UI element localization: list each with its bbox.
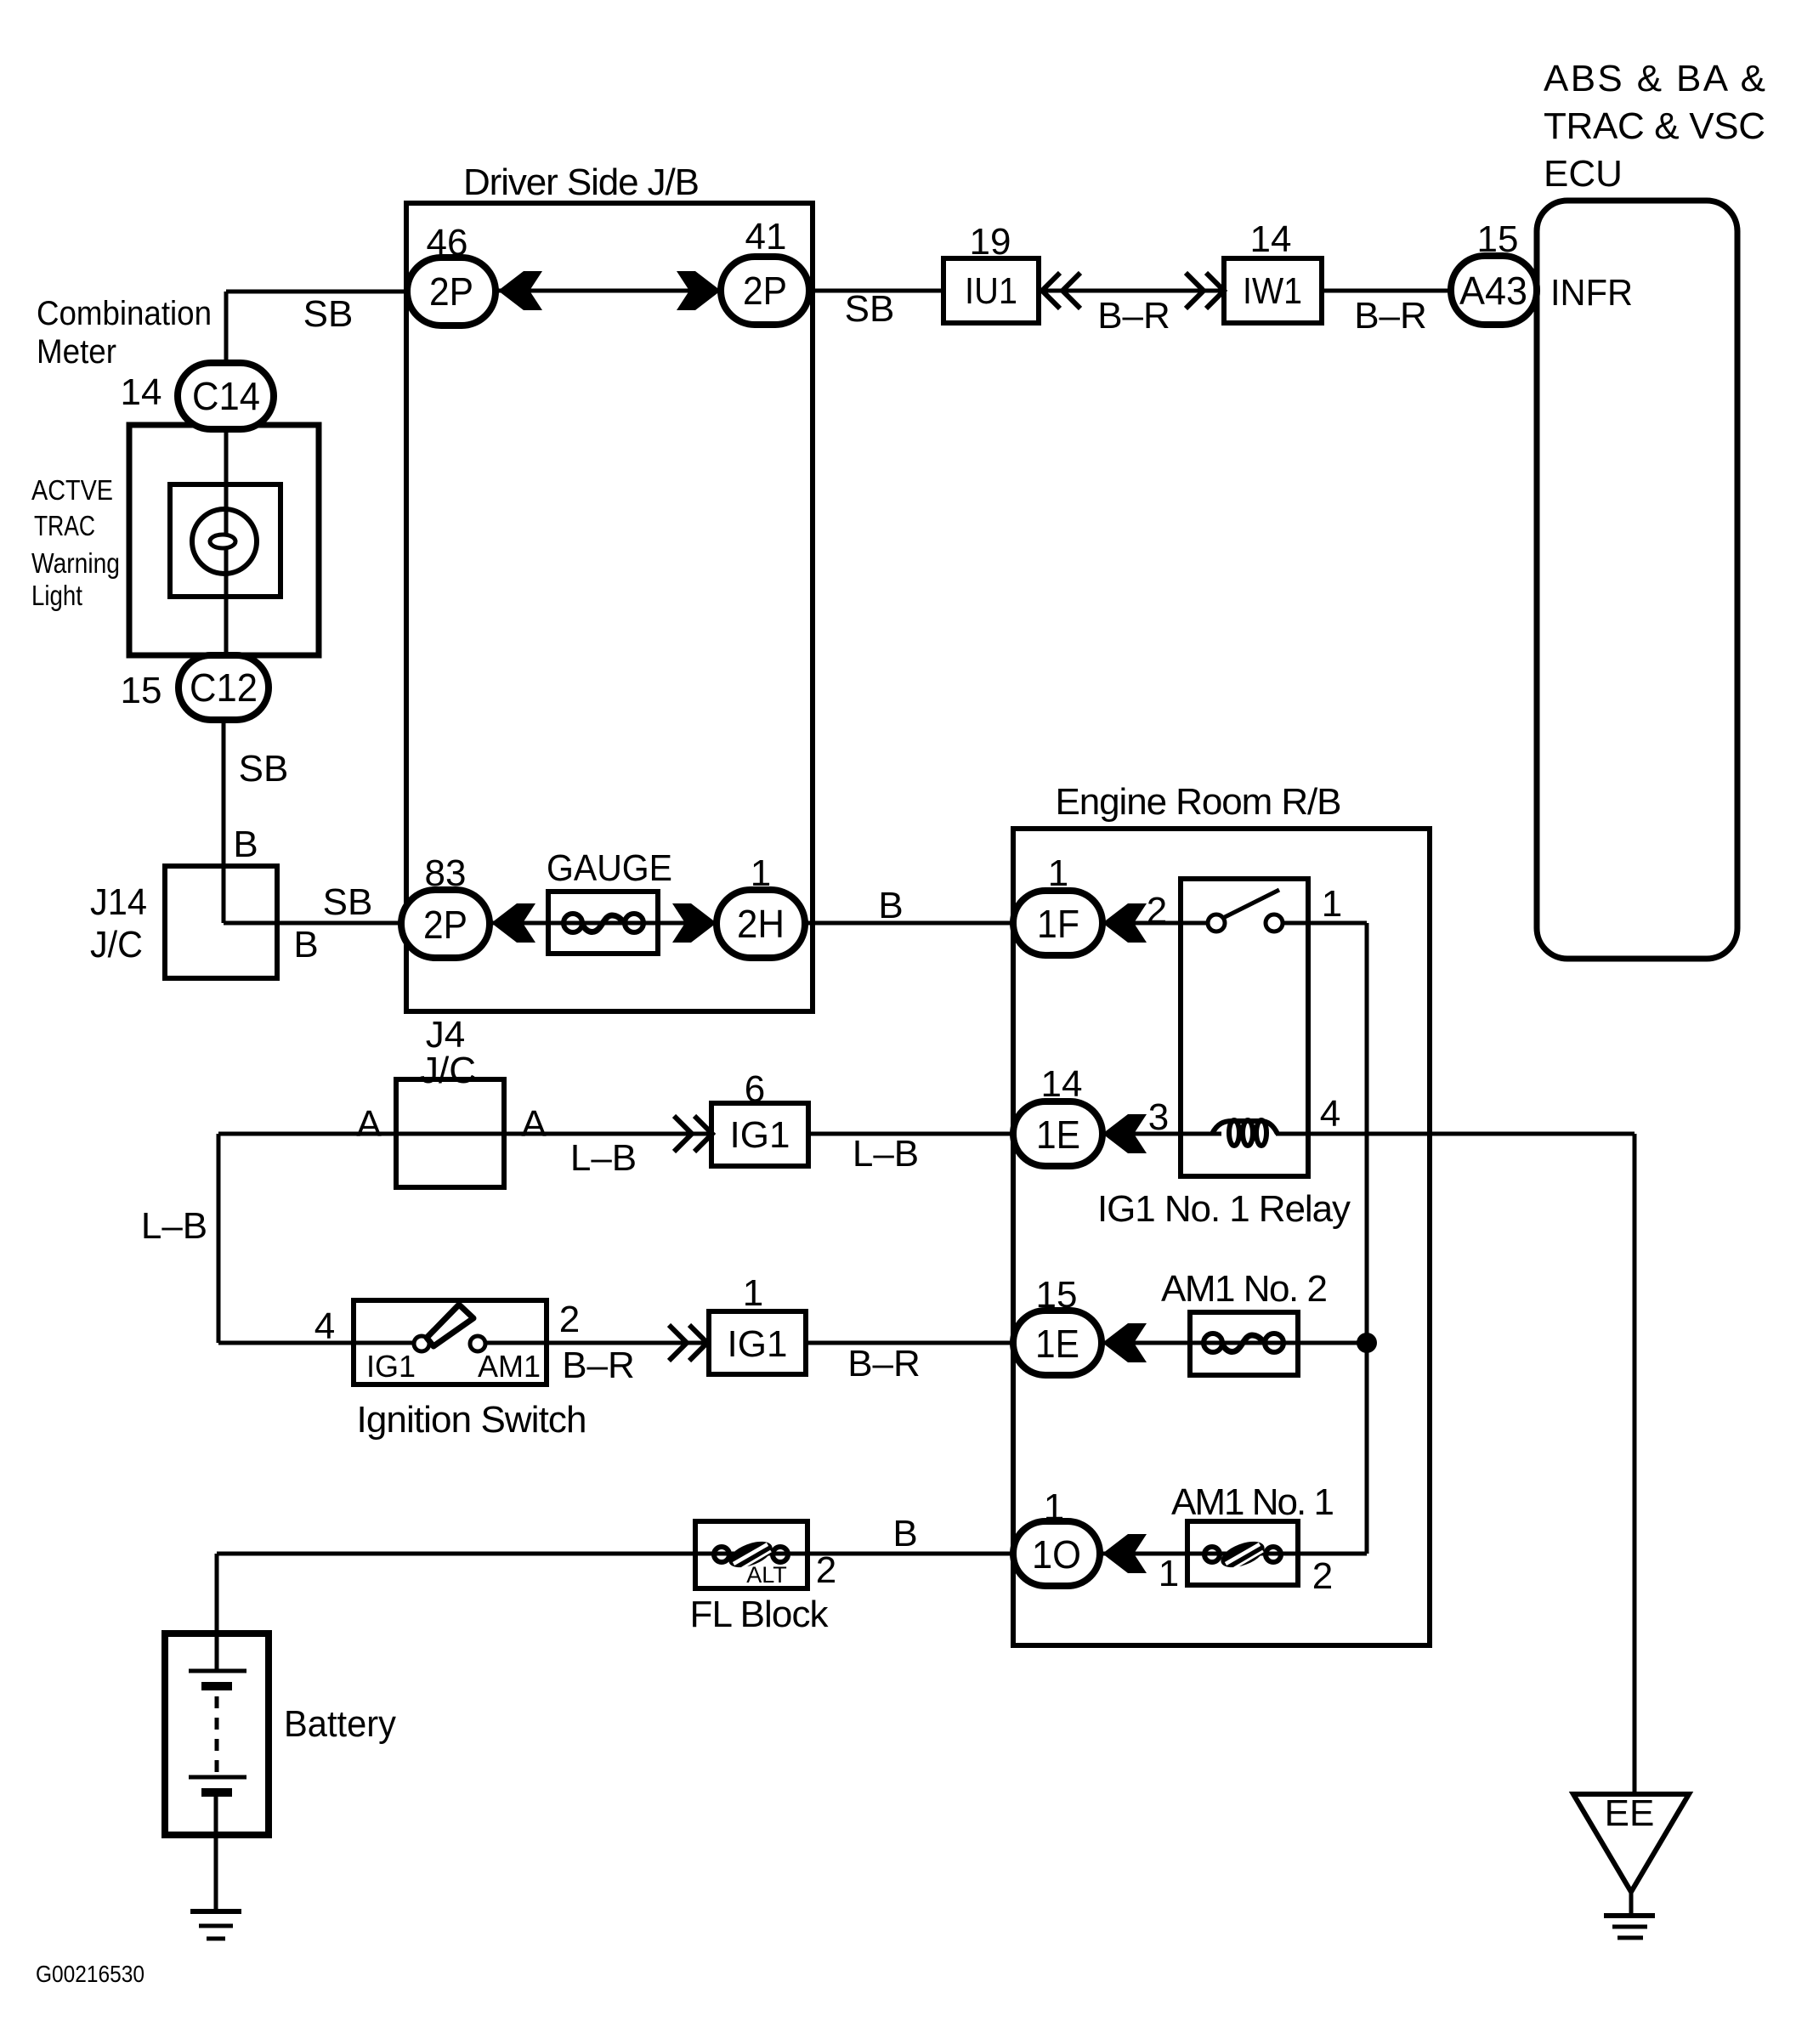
svg-text:Light: Light	[31, 580, 82, 611]
svg-text:IU1: IU1	[965, 270, 1017, 312]
svg-text:B–R: B–R	[1097, 295, 1170, 337]
svg-text:ALT: ALT	[746, 1562, 787, 1588]
svg-text:IG1 No. 1 Relay: IG1 No. 1 Relay	[1097, 1188, 1351, 1230]
svg-text:1E: 1E	[1035, 1322, 1079, 1366]
svg-text:Engine Room R/B: Engine Room R/B	[1056, 781, 1342, 823]
svg-text:1: 1	[1322, 883, 1342, 925]
svg-text:IW1: IW1	[1243, 270, 1302, 312]
svg-text:41: 41	[745, 216, 787, 258]
svg-text:14: 14	[1250, 218, 1292, 260]
svg-text:B–R: B–R	[847, 1343, 921, 1384]
svg-text:14: 14	[1041, 1063, 1083, 1105]
svg-text:IG1: IG1	[366, 1349, 416, 1384]
svg-text:1: 1	[1048, 852, 1068, 894]
svg-text:SB: SB	[845, 288, 895, 330]
svg-text:B: B	[892, 1513, 917, 1554]
svg-text:2P: 2P	[743, 269, 787, 313]
svg-text:Meter: Meter	[37, 333, 116, 371]
svg-text:46: 46	[427, 222, 468, 263]
svg-text:1F: 1F	[1037, 902, 1079, 946]
svg-text:6: 6	[745, 1068, 765, 1110]
svg-text:IG1: IG1	[730, 1114, 790, 1156]
svg-text:4: 4	[314, 1305, 335, 1347]
svg-text:ECU: ECU	[1544, 153, 1623, 195]
svg-text:ACTVE: ACTVE	[31, 474, 113, 506]
svg-text:SB: SB	[303, 293, 354, 335]
svg-text:SB: SB	[323, 881, 373, 923]
svg-text:AM1 No. 2: AM1 No. 2	[1161, 1268, 1328, 1310]
svg-text:EE: EE	[1605, 1792, 1655, 1834]
svg-text:L–B: L–B	[853, 1133, 919, 1175]
svg-text:L–B: L–B	[570, 1137, 637, 1179]
svg-text:1: 1	[1159, 1553, 1179, 1594]
svg-text:19: 19	[970, 221, 1011, 263]
svg-text:1: 1	[1044, 1486, 1064, 1528]
svg-text:15: 15	[121, 670, 162, 711]
svg-text:Combination: Combination	[37, 295, 212, 332]
svg-text:15: 15	[1477, 218, 1519, 260]
svg-text:15: 15	[1036, 1274, 1078, 1316]
svg-text:14: 14	[121, 371, 162, 413]
svg-text:4: 4	[1320, 1093, 1340, 1135]
svg-text:Battery: Battery	[284, 1703, 396, 1745]
svg-text:2: 2	[1312, 1555, 1333, 1597]
svg-text:2P: 2P	[423, 903, 467, 947]
svg-text:C12: C12	[190, 665, 258, 710]
svg-text:B: B	[233, 824, 258, 865]
svg-text:A: A	[356, 1103, 382, 1145]
svg-text:2: 2	[559, 1299, 580, 1340]
svg-text:AM1 No. 1: AM1 No. 1	[1171, 1481, 1334, 1523]
svg-text:C14: C14	[192, 374, 260, 418]
svg-text:GAUGE: GAUGE	[547, 847, 672, 889]
svg-text:A43: A43	[1459, 269, 1527, 313]
svg-text:INFR: INFR	[1550, 272, 1633, 314]
svg-text:IG1: IG1	[728, 1323, 788, 1365]
svg-text:83: 83	[425, 852, 467, 894]
svg-text:3: 3	[1148, 1096, 1169, 1138]
svg-text:TRAC & VSC: TRAC & VSC	[1544, 105, 1765, 147]
svg-text:SB: SB	[239, 748, 289, 790]
svg-text:1E: 1E	[1036, 1113, 1080, 1157]
svg-text:FL Block: FL Block	[690, 1594, 830, 1635]
svg-text:ABS & BA &: ABS & BA &	[1544, 58, 1765, 99]
svg-text:A: A	[521, 1103, 547, 1145]
svg-text:J14: J14	[90, 881, 147, 923]
svg-text:TRAC: TRAC	[34, 510, 95, 541]
svg-text:AM1: AM1	[478, 1349, 541, 1384]
svg-text:1O: 1O	[1032, 1532, 1081, 1577]
svg-text:J/C: J/C	[90, 924, 143, 965]
svg-text:Warning: Warning	[31, 547, 120, 579]
svg-text:2P: 2P	[429, 269, 473, 314]
svg-text:1: 1	[751, 852, 771, 894]
svg-text:Driver Side J/B: Driver Side J/B	[463, 161, 700, 203]
svg-text:B–R: B–R	[562, 1345, 635, 1386]
svg-text:2H: 2H	[737, 902, 785, 946]
svg-text:B: B	[293, 924, 318, 965]
svg-text:G00216530: G00216530	[36, 1961, 144, 1987]
svg-text:2: 2	[1147, 890, 1167, 931]
svg-text:J/C: J/C	[420, 1050, 476, 1091]
svg-text:1: 1	[743, 1272, 763, 1314]
svg-text:B–R: B–R	[1354, 295, 1427, 337]
svg-text:2: 2	[816, 1549, 836, 1591]
svg-text:Ignition Switch: Ignition Switch	[357, 1399, 587, 1441]
svg-text:B: B	[878, 885, 903, 926]
svg-text:L–B: L–B	[141, 1205, 207, 1247]
